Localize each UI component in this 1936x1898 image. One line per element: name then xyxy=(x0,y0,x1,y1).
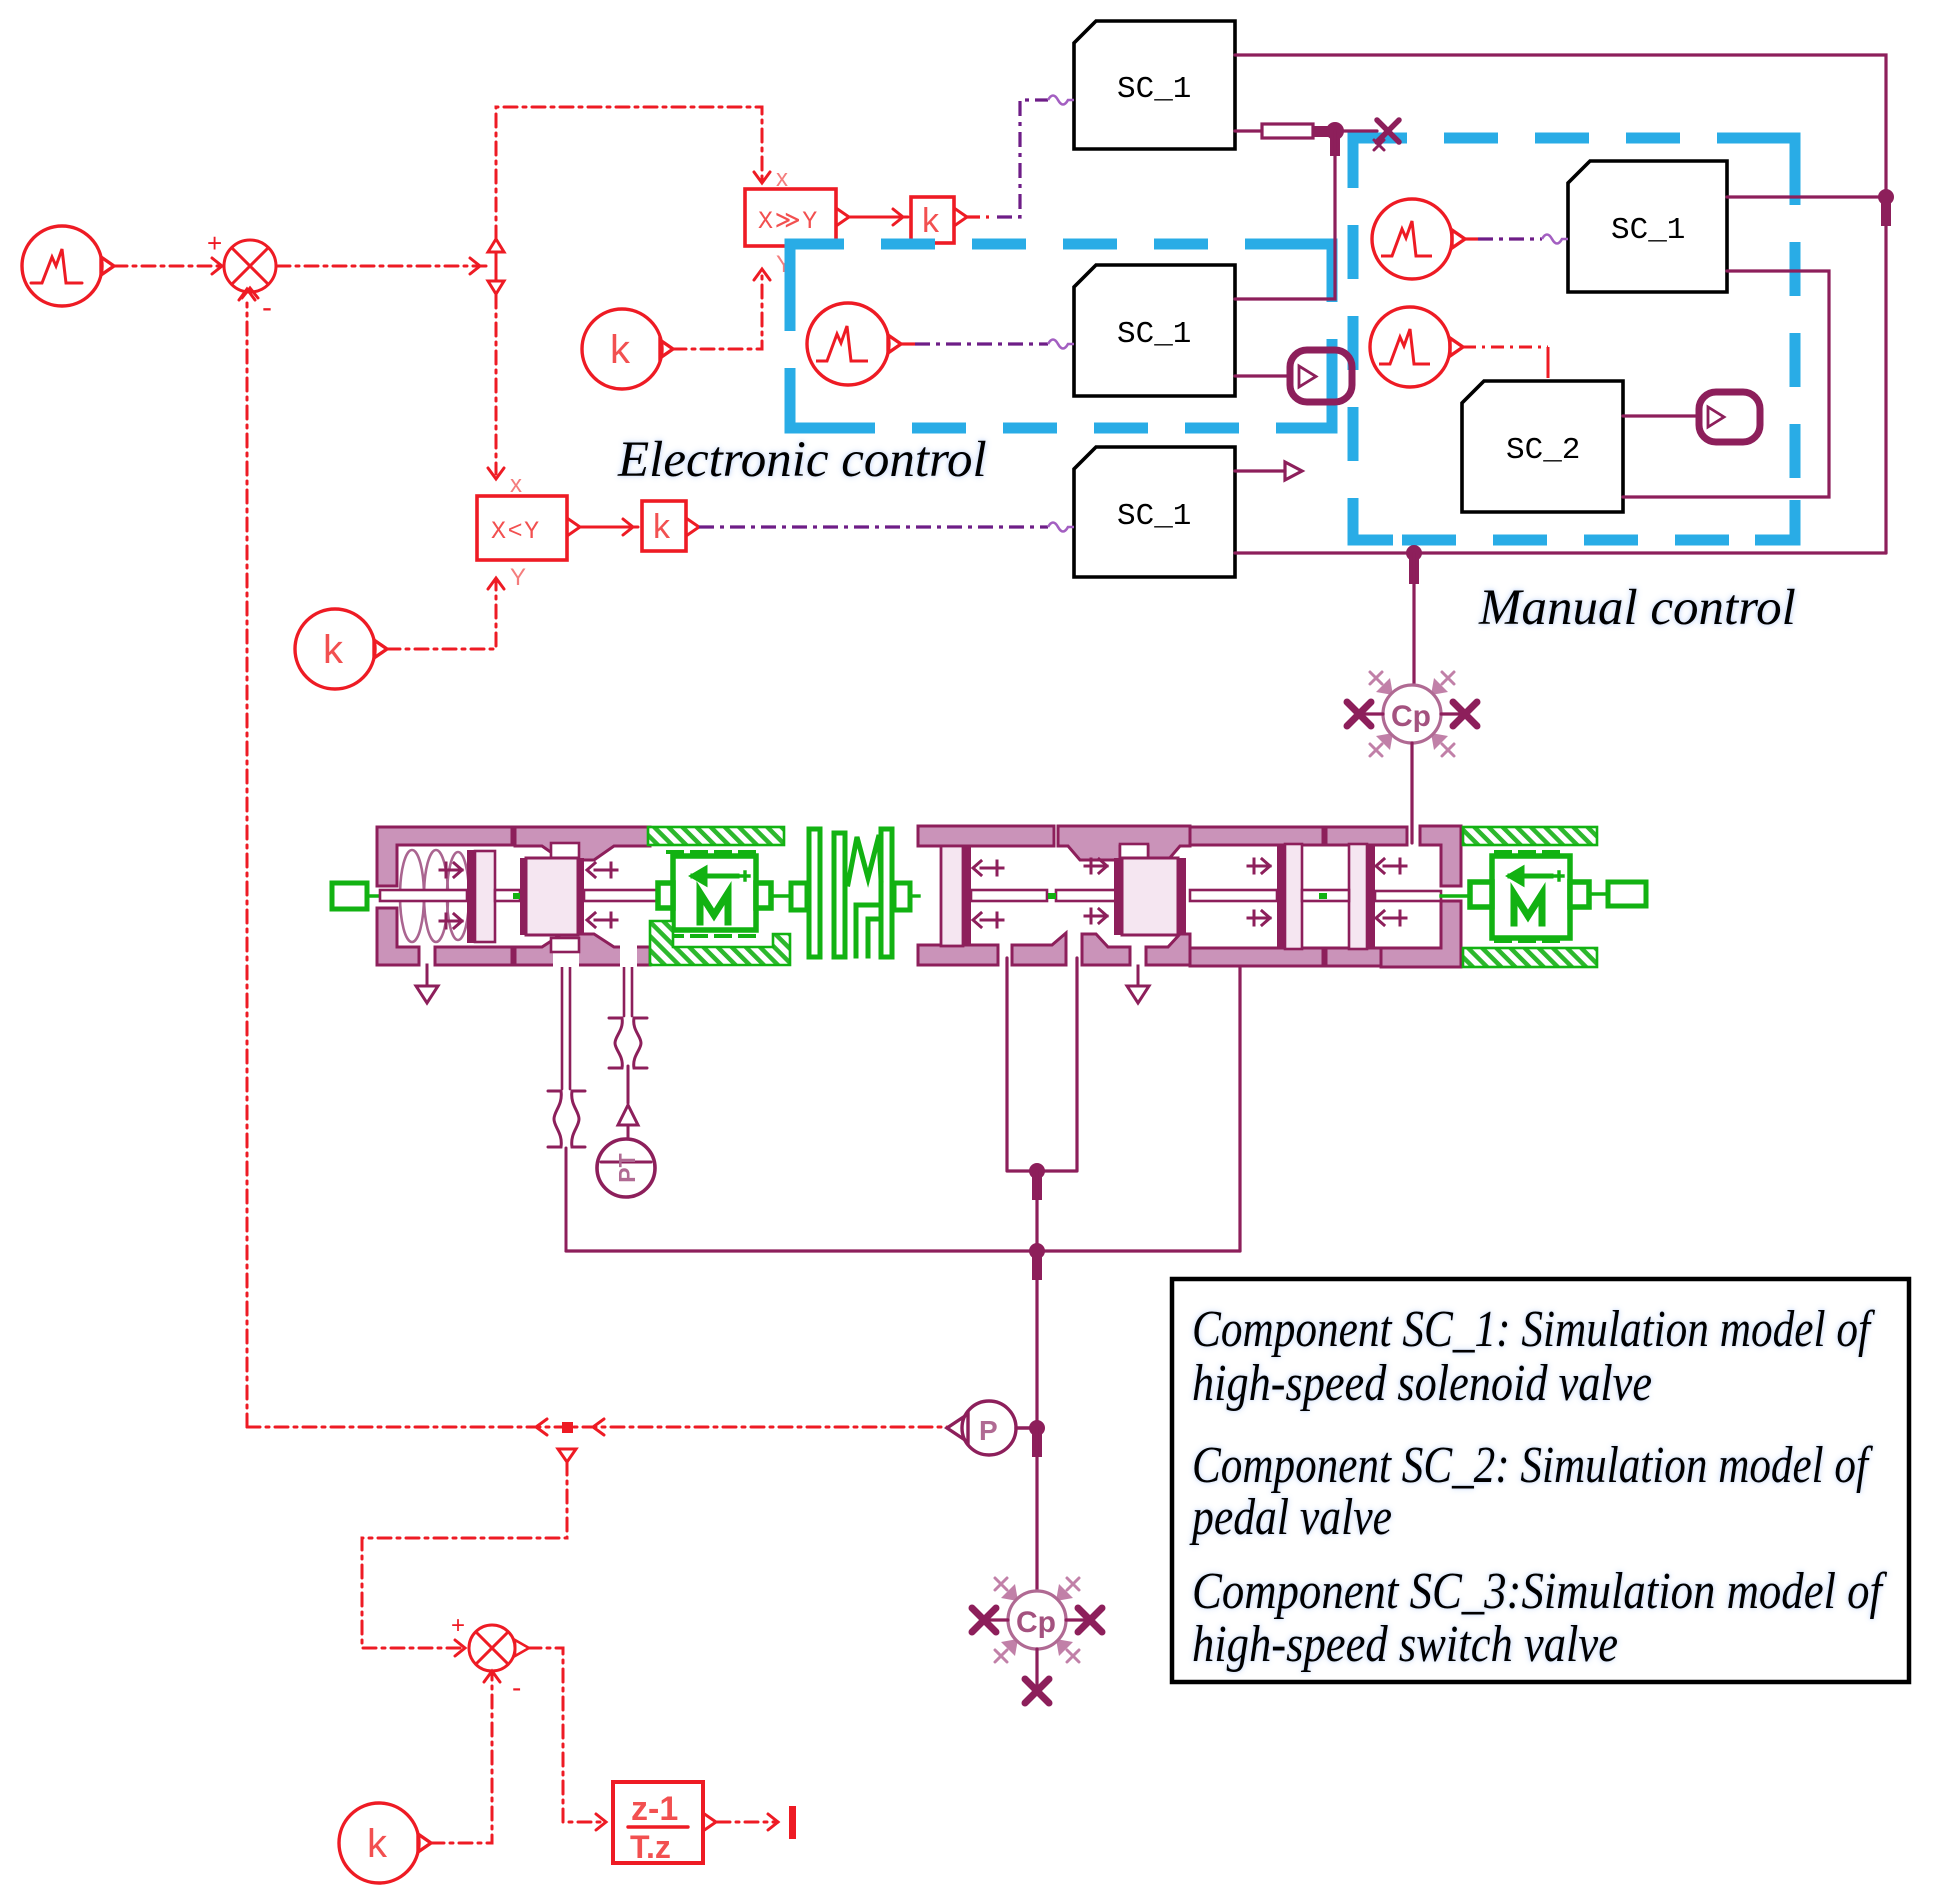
wire valve bottom-left port to main line xyxy=(562,963,570,1251)
node junction to Cp1 xyxy=(1406,545,1422,584)
component Cp2 (3-port pneumatic chamber) xyxy=(972,1578,1102,1703)
node split junction (dup triangles) xyxy=(488,239,504,294)
svg-text:z-1: z-1 xyxy=(631,1790,678,1828)
svg-text:Electronic control: Electronic control xyxy=(617,432,987,488)
blue dashed group box: Manual control xyxy=(1353,138,1795,540)
mass block M1 dashed contact top xyxy=(668,850,762,854)
wire B1 top output loop right xyxy=(1235,55,1886,553)
component SC_1 box B2 (electronic) xyxy=(1074,265,1235,396)
wire B1 lower output with inline element xyxy=(1235,124,1377,138)
svg-text:Manual control: Manual control xyxy=(1478,580,1796,636)
piston rod C xyxy=(971,890,1116,901)
gain K1 (box) xyxy=(911,197,967,243)
ground drain G1 xyxy=(416,965,438,1003)
wire KC1 to X>Y lower input xyxy=(673,251,792,349)
spool piston D xyxy=(1114,858,1186,935)
signal source SRC1 (ramp input) xyxy=(22,226,114,306)
port arrows cylinder A xyxy=(440,863,462,928)
svg-text:Y: Y xyxy=(510,564,526,591)
svg-text:Component SC_2: Simulation mod: Component SC_2: Simulation model of xyxy=(1192,1437,1873,1494)
scope SCOPE1 xyxy=(1290,350,1352,402)
spool block D housing (middle) xyxy=(1058,826,1190,965)
svg-text:SC_1: SC_1 xyxy=(1117,499,1191,534)
svg-text:pedal valve: pedal valve xyxy=(1189,1489,1392,1546)
svg-text:high-speed solenoid valve: high-speed solenoid valve xyxy=(1192,1355,1652,1412)
transducer green input connector (left) xyxy=(332,883,380,909)
spring (cylinder A) xyxy=(400,850,469,942)
svg-text:-: - xyxy=(262,291,272,324)
svg-text:k: k xyxy=(323,628,344,672)
wire main horizontal manifold xyxy=(566,1249,1240,1252)
svg-text:SC_1: SC_1 xyxy=(1611,213,1685,248)
wire KC3 to SUM2 xyxy=(431,1671,500,1843)
mass block M2 xyxy=(1470,856,1589,938)
component SC_1 box B1 (top) xyxy=(1074,21,1235,149)
svg-text:k: k xyxy=(610,328,631,372)
damper bracket (green) xyxy=(856,905,881,956)
wire B3 top output stub xyxy=(1235,462,1302,480)
ground drain G2 xyxy=(1127,966,1149,1003)
plugged port X mark xyxy=(1374,120,1399,150)
wire junction down to B2 top output xyxy=(1235,131,1335,299)
gain K2 (box) xyxy=(642,501,699,551)
mass M2 dashed contact bottom xyxy=(1496,939,1566,943)
wire branch down from feedback junction xyxy=(362,1449,576,1656)
node junction P tap xyxy=(1029,1420,1045,1457)
svg-text:SC_2: SC_2 xyxy=(1506,433,1580,468)
mass block M1 xyxy=(658,856,771,930)
svg-text:Component SC_3:Simulation mode: Component SC_3:Simulation model of xyxy=(1192,1563,1888,1620)
svg-text:P: P xyxy=(979,1415,998,1446)
summer SUM1 xyxy=(207,228,276,324)
piston C xyxy=(941,846,971,946)
svg-text:SC_1: SC_1 xyxy=(1117,72,1191,107)
transducer green end connector (right) xyxy=(1589,882,1646,906)
wire feedback long (P sensor to SUM1) xyxy=(239,289,949,1435)
piston rod B xyxy=(584,890,708,901)
svg-text:x: x xyxy=(510,471,522,498)
transfer function block z-1/T.z xyxy=(613,1782,716,1865)
node J-red junction on feedback xyxy=(562,1422,573,1433)
wire B4 top output to right bus xyxy=(1727,195,1886,198)
wire B3 lower output bus to right xyxy=(1235,551,1886,554)
mass block M1 hatched guide top xyxy=(648,827,784,845)
wire K1 to B1 (purple signal) xyxy=(967,96,1074,218)
sensor P with junction xyxy=(947,1401,1030,1455)
port arrows cylinder B xyxy=(587,863,617,927)
wire K2 to B3 (purple signal) xyxy=(699,523,1074,532)
cylinder B housing (second chamber) xyxy=(515,827,650,967)
spring-damper assembly plates (green) xyxy=(771,829,919,957)
node junction right bus xyxy=(1878,189,1894,226)
wire split up to X>Y input xyxy=(496,107,788,239)
sensor PT xyxy=(597,1105,655,1197)
signal source SRC-M2 (manual lower) xyxy=(1370,307,1463,387)
orifice O1 xyxy=(548,1091,585,1147)
port notch spool D xyxy=(1120,844,1148,860)
svg-text:+: + xyxy=(207,228,222,258)
wire valve mid ports loop xyxy=(1007,958,1077,1171)
wire X<Y to K2 xyxy=(580,519,638,535)
wire valve port2 down xyxy=(624,958,632,1103)
svg-text:high-speed switch valve: high-speed switch valve xyxy=(1192,1616,1618,1673)
blue dashed group box: Electronic control xyxy=(790,244,1332,428)
svg-text:k: k xyxy=(367,1822,388,1866)
svg-text:T.z: T.z xyxy=(630,1829,671,1865)
svg-text:SC_1: SC_1 xyxy=(1117,317,1191,352)
wire valve right port down xyxy=(1238,966,1241,1251)
piston rods E xyxy=(1190,890,1441,901)
port arrows cylinder E xyxy=(1248,859,1406,925)
mass block M1 dashed contact bottom xyxy=(668,934,762,938)
cylinder E housing (right) xyxy=(1190,826,1461,967)
component SC_2 box B5 xyxy=(1462,381,1623,512)
wire mid loop down to main junction xyxy=(1035,1171,1038,1428)
svg-text:Cp: Cp xyxy=(1391,700,1431,733)
wire B2 lower output to scope1 xyxy=(1235,374,1287,377)
wire X>Y to K1 xyxy=(849,209,908,225)
component SC_1 box B4 (manual) xyxy=(1568,161,1727,292)
piston A xyxy=(467,850,495,943)
wire Cp1 to valve top port xyxy=(1410,743,1413,843)
node junction B1-output xyxy=(1326,122,1344,156)
svg-text:-: - xyxy=(512,1672,521,1703)
wire SRC1 to SUM1 xyxy=(114,258,222,274)
wire SRC-M2 to SC_2 (red) xyxy=(1463,347,1548,378)
port arrows cylinder C xyxy=(973,861,1003,927)
gain K circle KC2 xyxy=(295,609,387,689)
wire SRC-M1 to B4 (purple signal) xyxy=(1465,235,1568,244)
wire SC_2 output to scope2 xyxy=(1623,414,1696,417)
node junction mid-loop xyxy=(1029,1163,1045,1200)
node junction manifold xyxy=(1029,1243,1045,1280)
svg-text:Cp: Cp xyxy=(1016,1606,1056,1639)
scope SCOPE2 xyxy=(1699,392,1760,442)
signal source SRC-E (electronic) xyxy=(807,303,901,385)
wire B4 lower output loop xyxy=(1623,271,1829,497)
green link elbow to M2 xyxy=(1441,894,1470,897)
cylinder A housing (left, spring chamber) xyxy=(377,827,512,965)
comparator X>Y xyxy=(745,189,849,246)
component Cp1 (3-port pneumatic chamber) xyxy=(1347,672,1477,756)
svg-text:+: + xyxy=(451,1612,465,1639)
spring zigzag (green) xyxy=(848,835,881,884)
port notch cylinder B xyxy=(551,843,579,859)
wire deriv block to terminator xyxy=(717,1806,796,1839)
gain K circle KC1 xyxy=(582,309,673,389)
wire SRC-E to B2 (purple signal) xyxy=(901,340,1074,349)
wire SUM2 to deriv block xyxy=(528,1648,606,1830)
pistons E xyxy=(1277,844,1375,949)
svg-text:PT: PT xyxy=(614,1153,640,1182)
wire SUM1 to node split xyxy=(277,258,487,274)
mass M2 dashed contact top xyxy=(1496,850,1566,854)
piston B (large) xyxy=(520,858,584,935)
svg-text:X < Y: X < Y xyxy=(491,517,539,546)
component SC_1 box B3 (lower) xyxy=(1074,447,1235,577)
svg-text:X ≫ Y: X ≫ Y xyxy=(758,207,817,236)
gain K circle KC3 xyxy=(339,1803,431,1883)
wire KC2 to X<Y lower input xyxy=(387,564,526,649)
port arrows spool D xyxy=(1085,859,1107,923)
summer SUM2 xyxy=(451,1612,529,1703)
wire split down to X<Y input xyxy=(488,295,522,498)
svg-text:k: k xyxy=(653,508,671,546)
wire P junction down to Cp2 xyxy=(1035,1428,1038,1591)
legend text box xyxy=(1172,1279,1909,1682)
wire junction down to Cp1 xyxy=(1412,553,1415,684)
comparator X<Y xyxy=(477,496,580,560)
svg-text:k: k xyxy=(922,202,940,240)
mass block M1 hatched guide bottom (J shape) xyxy=(650,921,790,965)
piston rod A xyxy=(380,890,520,901)
mass M2 hatched guide top xyxy=(1463,827,1597,845)
svg-text:Component SC_1: Simulation mod: Component SC_1: Simulation model of xyxy=(1192,1301,1875,1358)
orifice O2 xyxy=(609,1018,647,1068)
mass M2 hatched guide bottom xyxy=(1463,948,1597,967)
signal source SRC-M1 (manual top) xyxy=(1372,199,1465,279)
cylinder C housing (third) xyxy=(918,826,1066,965)
